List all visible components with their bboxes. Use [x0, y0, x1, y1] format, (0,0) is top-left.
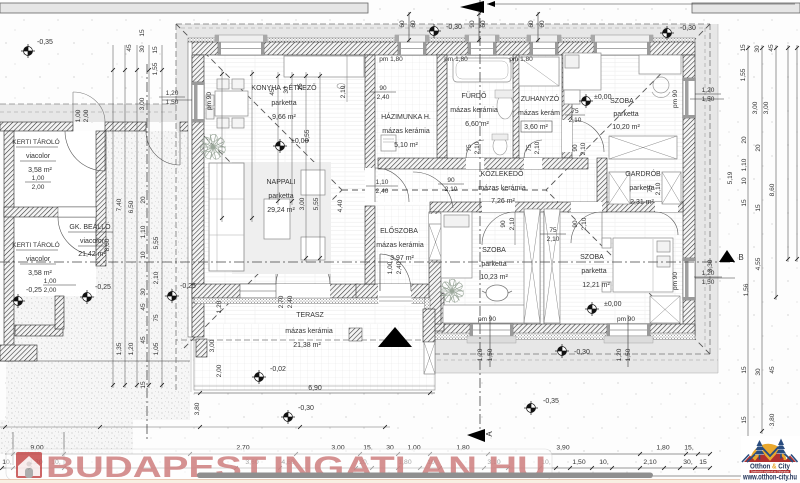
svg-text:-0,30: -0,30 [680, 25, 696, 32]
svg-text:2,10: 2,10 [340, 85, 347, 98]
svg-text:ZUHANYZÓ: ZUHANYZÓ [521, 94, 560, 103]
svg-text:5,19: 5,19 [727, 171, 734, 184]
svg-text:-0,30: -0,30 [574, 349, 590, 356]
svg-text:1,05: 1,05 [153, 342, 160, 355]
svg-text:1,56: 1,56 [743, 283, 750, 296]
svg-text:1,55: 1,55 [152, 62, 159, 75]
svg-text:29,24 m²: 29,24 m² [267, 207, 295, 214]
svg-text:2,31 m²: 2,31 m² [630, 199, 654, 206]
svg-text:20: 20 [741, 136, 748, 144]
svg-text:90: 90 [500, 220, 507, 228]
svg-text:1,00: 1,00 [44, 278, 57, 285]
svg-text:6,50: 6,50 [128, 200, 135, 213]
svg-text:3,00: 3,00 [139, 97, 146, 110]
svg-text:3,00: 3,00 [752, 101, 759, 114]
svg-text:GARDRÓB: GARDRÓB [625, 169, 661, 178]
svg-text:2,10: 2,10 [153, 271, 160, 284]
svg-text:1,20: 1,20 [128, 342, 135, 355]
svg-text:mázas kerám: mázas kerám [518, 110, 560, 117]
svg-text:30: 30 [139, 45, 146, 53]
svg-text:1,50: 1,50 [702, 279, 715, 286]
svg-text:8,60: 8,60 [104, 238, 111, 251]
svg-text:45: 45 [126, 44, 133, 52]
svg-text:21,38 m²: 21,38 m² [293, 342, 321, 349]
svg-text:2,40: 2,40 [287, 295, 294, 308]
svg-text:pm 1,80: pm 1,80 [509, 56, 533, 63]
svg-text:10,23 m²: 10,23 m² [480, 274, 508, 281]
svg-text:2,00: 2,00 [32, 184, 45, 191]
svg-text:pm 90: pm 90 [672, 90, 679, 108]
svg-text:45: 45 [769, 366, 776, 374]
svg-text:1,00: 1,00 [387, 261, 394, 274]
svg-text:GK. BEÁLLÓ: GK. BEÁLLÓ [69, 222, 111, 231]
svg-text:15: 15 [740, 44, 747, 52]
svg-text:45: 45 [140, 303, 147, 311]
svg-text:SZOBA: SZOBA [580, 254, 604, 261]
svg-text:15: 15 [152, 46, 159, 54]
svg-text:1,35: 1,35 [116, 342, 123, 355]
svg-text:pm 1,80: pm 1,80 [444, 56, 468, 63]
svg-text:15: 15 [741, 416, 748, 424]
svg-text:3,00: 3,00 [299, 197, 306, 210]
svg-text:1,10: 1,10 [376, 179, 389, 186]
svg-text:3,80: 3,80 [769, 413, 776, 426]
svg-text:1,10: 1,10 [140, 225, 147, 238]
svg-text:60: 60 [539, 20, 546, 28]
svg-text:2,10: 2,10 [643, 459, 656, 466]
svg-text:60: 60 [399, 20, 406, 28]
svg-text:3,60 m²: 3,60 m² [524, 124, 548, 131]
svg-text:30: 30 [140, 288, 147, 296]
svg-text:75: 75 [549, 227, 557, 234]
svg-text:4,40: 4,40 [337, 199, 344, 212]
svg-text:90: 90 [469, 20, 476, 28]
svg-text:7,40: 7,40 [116, 198, 123, 211]
svg-text:3,00: 3,00 [209, 339, 216, 352]
svg-text:parketta: parketta [271, 100, 296, 107]
svg-text:10: 10 [741, 177, 748, 185]
svg-text:SZOBA: SZOBA [482, 247, 506, 254]
svg-text:9,66 m²: 9,66 m² [272, 114, 296, 121]
svg-text:mázas kerámia: mázas kerámia [478, 185, 526, 192]
svg-text:Otthon & City: Otthon & City [750, 462, 791, 471]
svg-text:1,00: 1,00 [32, 175, 45, 182]
svg-text:3,80: 3,80 [194, 402, 201, 415]
svg-text:TERASZ: TERASZ [296, 312, 324, 319]
svg-text:5,55: 5,55 [153, 236, 160, 249]
svg-text:10,20 m²: 10,20 m² [612, 124, 640, 131]
svg-text:SZOBA: SZOBA [610, 98, 634, 105]
svg-text:2,10: 2,10 [655, 182, 662, 195]
svg-text:pm 1,80: pm 1,80 [379, 56, 403, 63]
svg-text:viacolor: viacolor [26, 153, 51, 160]
svg-text:2,40: 2,40 [396, 261, 403, 274]
svg-text:FÜRDŐ: FÜRDŐ [462, 91, 487, 100]
svg-text:KÖZLEKEDŐ: KÖZLEKEDŐ [481, 169, 524, 178]
svg-text:30: 30 [754, 45, 761, 53]
svg-text:1,10: 1,10 [741, 158, 748, 171]
svg-text:-0,25: -0,25 [95, 284, 111, 291]
svg-text:2,40: 2,40 [377, 94, 390, 101]
svg-text:30: 30 [283, 86, 290, 94]
svg-text:90: 90 [447, 177, 455, 184]
svg-text:-0,35: -0,35 [543, 398, 559, 405]
svg-text:20: 20 [755, 144, 762, 152]
svg-text:1,55: 1,55 [740, 68, 747, 81]
svg-text:90: 90 [572, 144, 579, 152]
svg-text:12,21 m²: 12,21 m² [582, 282, 610, 289]
svg-text:75: 75 [647, 185, 654, 193]
svg-text:www.otthon-city.hu: www.otthon-city.hu [742, 473, 797, 482]
svg-text:60: 60 [528, 20, 535, 28]
svg-text:15: 15 [741, 366, 748, 374]
svg-text:6,90: 6,90 [308, 385, 322, 392]
svg-text:-0,02: -0,02 [270, 366, 286, 373]
svg-text:1,80: 1,80 [656, 445, 669, 452]
svg-text:3,58 m²: 3,58 m² [28, 167, 52, 174]
svg-text:15: 15 [755, 204, 762, 212]
svg-text:15: 15 [140, 381, 147, 389]
svg-text:-0,25: -0,25 [26, 287, 42, 294]
svg-text:5,10 m²: 5,10 m² [394, 142, 418, 149]
svg-text:1,20: 1,20 [477, 348, 484, 361]
svg-text:pm 90: pm 90 [672, 272, 679, 290]
svg-text:mázas kerámia: mázas kerámia [376, 242, 424, 249]
svg-text:2,10: 2,10 [445, 186, 458, 193]
svg-text:90: 90 [379, 85, 387, 92]
svg-text:1,50: 1,50 [625, 348, 632, 361]
svg-text:5,55: 5,55 [313, 197, 320, 210]
svg-text:±0,00: ±0,00 [604, 301, 622, 308]
svg-text:3,90: 3,90 [556, 445, 569, 452]
svg-text:3,97 m²: 3,97 m² [390, 255, 414, 262]
svg-text:-0,30: -0,30 [298, 405, 314, 412]
svg-text:±0,00: ±0,00 [291, 138, 309, 145]
svg-text:A: A [485, 431, 494, 437]
svg-text:8,60: 8,60 [769, 183, 776, 196]
svg-text:21,42 m²: 21,42 m² [78, 251, 106, 258]
svg-text:2,10: 2,10 [509, 217, 516, 230]
svg-text:viacolor: viacolor [80, 238, 105, 245]
svg-text:10: 10 [140, 251, 147, 259]
svg-text:NAPPALI: NAPPALI [266, 179, 295, 186]
svg-text:90: 90 [572, 220, 579, 228]
svg-text:2,70: 2,70 [278, 295, 285, 308]
svg-text:75: 75 [526, 144, 533, 152]
svg-text:15: 15 [139, 29, 146, 37]
svg-text:75: 75 [466, 144, 473, 152]
svg-text:6,60 m²: 6,60 m² [465, 121, 489, 128]
svg-text:2,00: 2,00 [83, 109, 90, 122]
svg-text:15: 15 [297, 83, 304, 91]
svg-text:10,: 10, [599, 459, 609, 466]
svg-text:2,10: 2,10 [547, 236, 560, 243]
svg-text:15: 15 [699, 459, 707, 466]
svg-text:2,00: 2,00 [44, 287, 57, 294]
svg-text:B: B [738, 253, 743, 262]
svg-text:2,10: 2,10 [534, 141, 541, 154]
svg-text:3,00: 3,00 [763, 101, 770, 114]
svg-text:30,: 30, [683, 459, 693, 466]
svg-text:HÁZIMUNKA H.: HÁZIMUNKA H. [381, 112, 431, 121]
svg-text:75: 75 [153, 314, 160, 322]
svg-text:1,20: 1,20 [702, 87, 715, 94]
svg-text:mázas kerámia: mázas kerámia [450, 107, 498, 114]
svg-text:7,26 m²: 7,26 m² [491, 198, 515, 205]
svg-text:45: 45 [768, 44, 775, 52]
svg-text:KERTI TÁROLÓ: KERTI TÁROLÓ [12, 137, 59, 146]
svg-text:2,10: 2,10 [569, 117, 582, 124]
svg-text:3,58 m²: 3,58 m² [28, 270, 52, 277]
svg-text:45: 45 [269, 88, 276, 96]
svg-text:4,55: 4,55 [755, 257, 762, 270]
svg-text:pm 90: pm 90 [478, 316, 496, 323]
svg-text:KERTI TÁROLÓ: KERTI TÁROLÓ [12, 240, 59, 249]
svg-text:15: 15 [741, 199, 748, 207]
svg-text:1,20: 1,20 [216, 300, 223, 313]
svg-text:75: 75 [571, 108, 579, 115]
svg-text:ELŐSZOBA: ELŐSZOBA [380, 226, 418, 235]
svg-text:3,30: 3,30 [707, 259, 714, 272]
svg-text:1,20: 1,20 [616, 348, 623, 361]
svg-text:parketta: parketta [581, 268, 606, 275]
svg-text:mázas kerámia: mázas kerámia [285, 328, 333, 335]
svg-text:BUDAPEST.INGATLAN.HU: BUDAPEST.INGATLAN.HU [46, 451, 546, 483]
svg-text:30: 30 [755, 368, 762, 376]
svg-text:2,40: 2,40 [376, 188, 389, 195]
svg-text:pm 90: pm 90 [206, 92, 213, 110]
svg-text:45: 45 [140, 336, 147, 344]
svg-text:-0,35: -0,35 [37, 39, 53, 46]
svg-text:1,00: 1,00 [75, 109, 82, 122]
svg-text:2,10: 2,10 [580, 142, 587, 155]
svg-text:-0,25: -0,25 [180, 283, 196, 290]
svg-text:parketta: parketta [613, 111, 638, 118]
svg-text:mázas kerámia: mázas kerámia [382, 128, 430, 135]
svg-text:1,20: 1,20 [166, 90, 179, 97]
svg-text:60: 60 [480, 20, 487, 28]
svg-text:15,: 15, [684, 445, 694, 452]
svg-text:±0,00: ±0,00 [594, 94, 612, 101]
svg-text:20: 20 [140, 196, 147, 204]
svg-text:-0,30: -0,30 [446, 24, 462, 31]
svg-text:1,50: 1,50 [572, 459, 585, 466]
svg-text:1,50: 1,50 [702, 96, 715, 103]
svg-text:60: 60 [410, 20, 417, 28]
svg-text:parketta: parketta [268, 193, 293, 200]
svg-text:1,50: 1,50 [487, 348, 494, 361]
svg-text:pm 90: pm 90 [617, 316, 635, 323]
svg-text:2,10: 2,10 [581, 217, 588, 230]
svg-text:2,00: 2,00 [216, 364, 223, 377]
